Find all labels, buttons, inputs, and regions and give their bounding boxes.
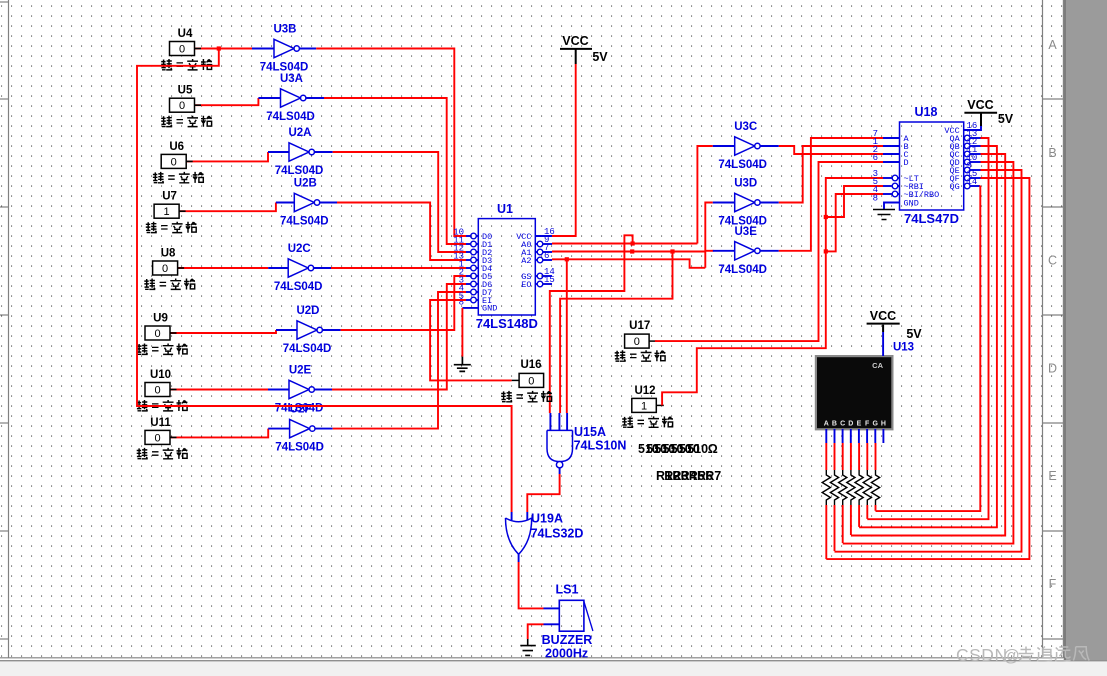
svg-text:VCC: VCC — [870, 309, 896, 323]
svg-text:6: 6 — [544, 251, 549, 261]
svg-text:U15A: U15A — [574, 425, 606, 439]
svg-text:U9: U9 — [153, 313, 168, 325]
svg-text:Ω: Ω — [708, 442, 718, 456]
svg-text:0: 0 — [179, 100, 185, 112]
svg-text:QG: QG — [949, 182, 959, 192]
svg-text:U10: U10 — [150, 369, 171, 381]
svg-text:0: 0 — [162, 263, 168, 275]
svg-text:CA: CA — [872, 361, 883, 370]
svg-text:C: C — [840, 421, 845, 428]
svg-text:0: 0 — [154, 432, 160, 444]
svg-text:U7: U7 — [162, 191, 177, 203]
svg-text:G: G — [873, 421, 879, 428]
svg-text:VCC: VCC — [562, 34, 588, 48]
svg-text:A: A — [824, 421, 829, 428]
svg-text:U12: U12 — [634, 385, 655, 397]
svg-text:U3B: U3B — [273, 24, 296, 36]
svg-text:2000Hz: 2000Hz — [545, 647, 588, 661]
svg-text:U3E: U3E — [735, 226, 758, 238]
svg-text:LS1: LS1 — [556, 583, 579, 597]
svg-text:0: 0 — [154, 328, 160, 340]
svg-text:CSDN: CSDN — [956, 645, 1008, 665]
svg-text:U2D: U2D — [296, 305, 319, 317]
svg-text:U3D: U3D — [734, 178, 757, 190]
svg-text:74LS04D: 74LS04D — [275, 165, 324, 177]
svg-text:1: 1 — [164, 206, 170, 218]
svg-text:U1: U1 — [497, 202, 513, 216]
svg-text:0: 0 — [179, 44, 185, 56]
svg-text:E: E — [1048, 469, 1056, 483]
svg-text:F: F — [1049, 577, 1057, 591]
svg-text:74LS10N: 74LS10N — [574, 439, 627, 453]
svg-text:0: 0 — [634, 336, 640, 348]
svg-text:U3C: U3C — [734, 121, 757, 133]
svg-text:GND: GND — [904, 199, 919, 209]
svg-text:U8: U8 — [161, 248, 176, 260]
svg-text:E: E — [857, 421, 862, 428]
svg-text:74LS04D: 74LS04D — [266, 111, 315, 123]
svg-text:1: 1 — [641, 400, 647, 412]
svg-text:74LS32D: 74LS32D — [531, 527, 584, 541]
svg-text:U6: U6 — [169, 141, 184, 153]
svg-text:74LS148D: 74LS148D — [476, 316, 538, 331]
svg-text:0: 0 — [171, 156, 177, 168]
svg-text:15: 15 — [544, 275, 555, 285]
svg-text:A2: A2 — [521, 256, 531, 266]
svg-text:B: B — [832, 421, 837, 428]
svg-text:D: D — [904, 158, 909, 168]
svg-text:U3A: U3A — [280, 73, 303, 85]
svg-text:8: 8 — [873, 194, 878, 204]
svg-text:B: B — [1048, 146, 1056, 160]
svg-text:BUZZER: BUZZER — [542, 633, 593, 647]
svg-text:510: 510 — [687, 442, 708, 456]
svg-text:74LS04D: 74LS04D — [718, 264, 767, 276]
svg-text:74LS04D: 74LS04D — [260, 62, 309, 74]
svg-text:EO: EO — [521, 280, 531, 290]
svg-text:VCC: VCC — [967, 98, 993, 112]
svg-text:U2A: U2A — [288, 127, 311, 139]
svg-text:14: 14 — [967, 177, 978, 187]
svg-text:74LS04D: 74LS04D — [274, 281, 323, 293]
svg-text:U13: U13 — [893, 342, 914, 354]
svg-text:74LS04D: 74LS04D — [283, 343, 332, 355]
svg-text:@: @ — [1003, 647, 1020, 665]
svg-text:C: C — [1048, 254, 1057, 268]
svg-text:U18: U18 — [915, 105, 938, 119]
svg-text:R7: R7 — [705, 469, 721, 483]
svg-text:D: D — [1048, 361, 1057, 375]
svg-text:U2B: U2B — [294, 178, 317, 190]
svg-text:GND: GND — [482, 304, 497, 314]
svg-text:A: A — [1048, 38, 1057, 52]
svg-text:74LS04D: 74LS04D — [718, 159, 767, 171]
svg-text:F: F — [865, 421, 870, 428]
svg-text:8: 8 — [459, 298, 464, 308]
svg-text:U4: U4 — [178, 28, 193, 40]
svg-text:5V: 5V — [592, 50, 608, 64]
svg-text:5V: 5V — [998, 112, 1014, 126]
svg-text:74LS04D: 74LS04D — [275, 442, 324, 454]
svg-text:5V: 5V — [906, 327, 922, 341]
svg-text:0: 0 — [154, 385, 160, 397]
svg-text:U11: U11 — [150, 417, 171, 429]
svg-text:U19A: U19A — [531, 512, 563, 526]
svg-text:U16: U16 — [520, 359, 541, 371]
svg-text:D: D — [848, 421, 853, 428]
svg-text:U2E: U2E — [289, 365, 312, 377]
svg-text:U2C: U2C — [288, 243, 311, 255]
svg-text:6: 6 — [873, 153, 878, 163]
svg-text:H: H — [881, 421, 886, 428]
svg-text:74LS47D: 74LS47D — [904, 211, 959, 226]
svg-text:74LS04D: 74LS04D — [280, 216, 329, 228]
svg-text:U17: U17 — [629, 320, 650, 332]
svg-text:U5: U5 — [178, 85, 193, 97]
svg-text:0: 0 — [528, 375, 534, 387]
